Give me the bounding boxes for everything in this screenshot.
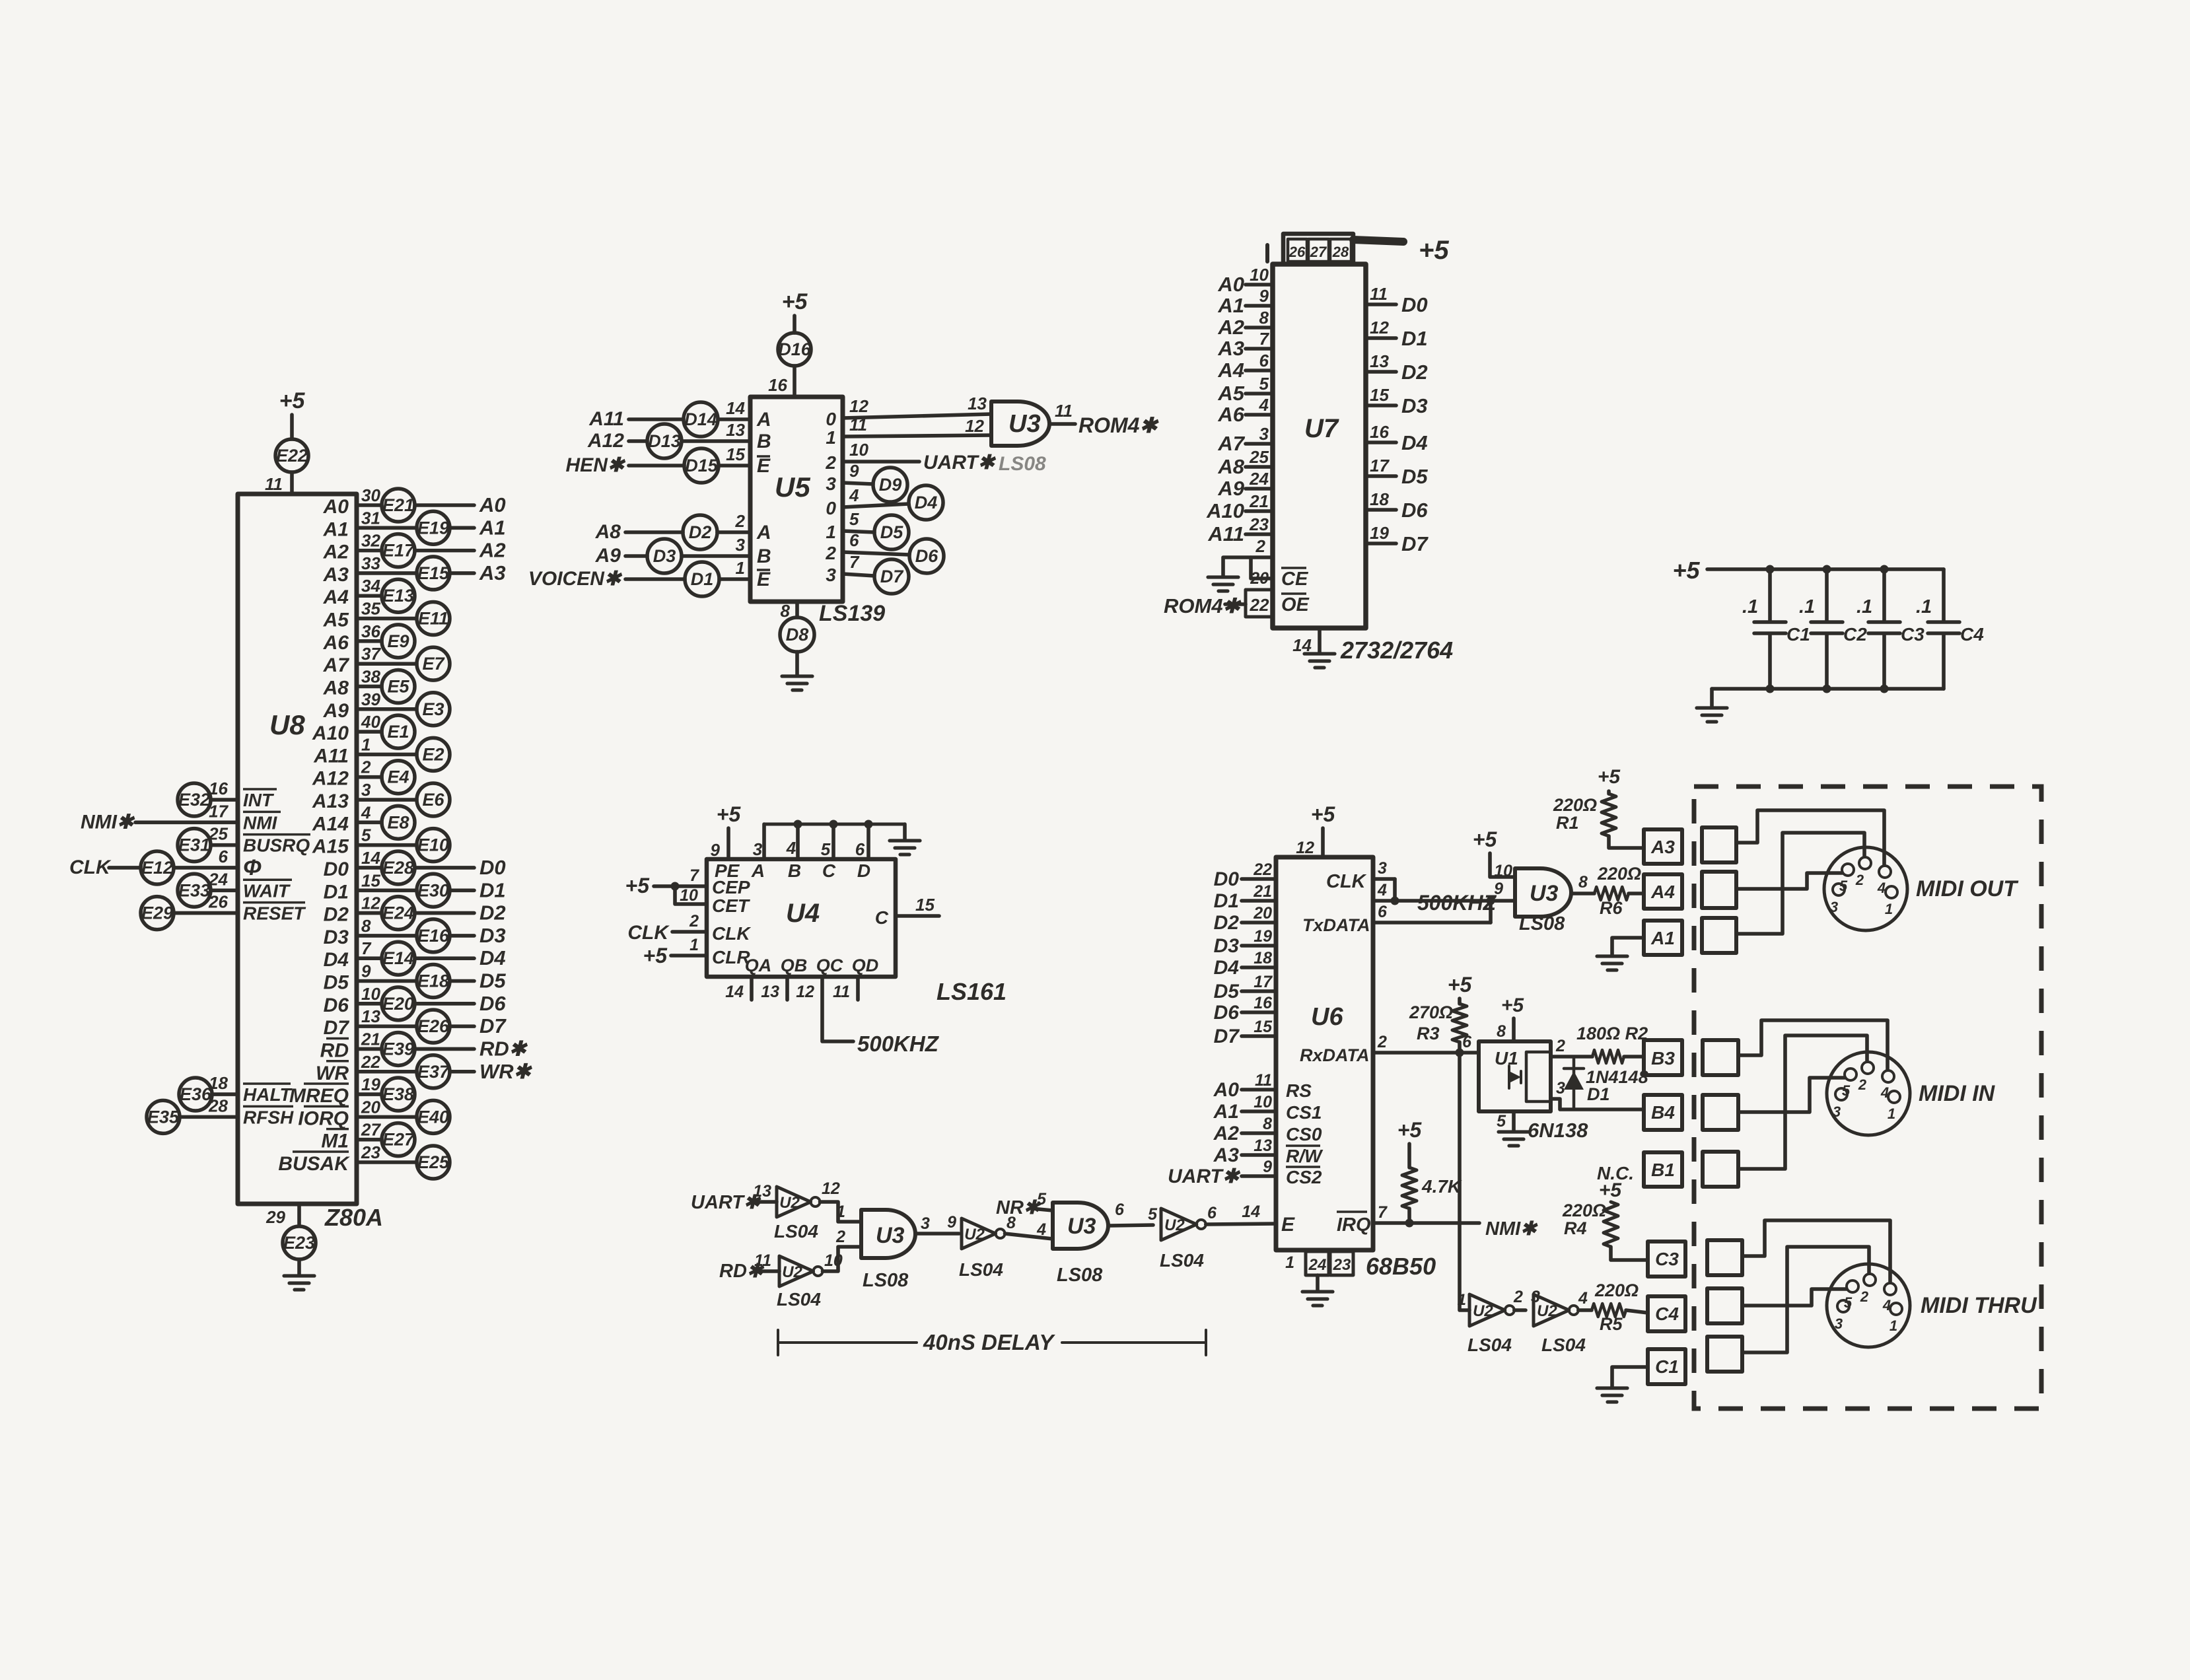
svg-text:7: 7 [689, 866, 699, 885]
svg-text:24: 24 [1308, 1256, 1327, 1274]
svg-text:8: 8 [361, 916, 371, 936]
svg-text:E11: E11 [418, 609, 448, 629]
solder pad MIDI OUT 1 [1702, 827, 1736, 862]
wire E22 to U8 pin 11 [290, 472, 294, 494]
junction dot U4 rail [830, 820, 838, 829]
wire U8 A11 stub [357, 753, 417, 757]
jumper D8 [780, 617, 814, 652]
svg-text:E19: E19 [417, 518, 449, 538]
wire D16 to U5 pin 16 [793, 366, 796, 397]
svg-text:RD✱: RD✱ [479, 1037, 528, 1060]
ground (U8) [284, 1276, 314, 1290]
wire CLK to U4 [672, 930, 707, 934]
jumper D6 [909, 539, 944, 573]
svg-text:180Ω R2: 180Ω R2 [1576, 1024, 1648, 1043]
solder pad MIDI IN 1 [1703, 1040, 1738, 1075]
svg-text:6: 6 [855, 839, 865, 859]
jumper E24 [382, 897, 415, 930]
svg-text:E12: E12 [141, 858, 173, 878]
svg-text:22: 22 [1253, 860, 1272, 879]
wire R5 to C4 pad [1626, 1310, 1648, 1313]
svg-text:C3: C3 [1655, 1249, 1679, 1269]
svg-text:21: 21 [361, 1029, 380, 1049]
svg-text:A1: A1 [479, 516, 506, 539]
wire U4 input A riser [762, 824, 766, 859]
svg-text:1: 1 [1890, 1317, 1897, 1334]
jumper E14 [382, 942, 415, 975]
wire D14 to U5 [718, 417, 750, 421]
svg-text:12: 12 [849, 396, 868, 416]
junction dot TxDATA [1487, 897, 1495, 905]
svg-text:D5: D5 [880, 522, 903, 542]
svg-text:LS04: LS04 [1541, 1335, 1586, 1355]
svg-text:7: 7 [849, 552, 860, 572]
capacitor C1 [1742, 596, 1810, 645]
wire cap C2 top lead [1825, 569, 1829, 621]
svg-text:6: 6 [1462, 1033, 1472, 1051]
wire +5 to U4 CLR [671, 954, 707, 958]
svg-text:A3: A3 [323, 564, 349, 586]
svg-text:24: 24 [1249, 469, 1269, 489]
svg-text:D0: D0 [1401, 293, 1428, 316]
junction dot IRQ pullup [1405, 1219, 1414, 1228]
U6 pin 24 box [1306, 1251, 1329, 1275]
wire A0 to U7 [1246, 283, 1273, 287]
svg-text:U2: U2 [1537, 1302, 1557, 1320]
svg-text:E: E [757, 455, 771, 477]
wire +5 to D16 [793, 316, 796, 333]
wire U3b out to U2c [917, 1232, 959, 1236]
svg-text:E: E [757, 569, 771, 590]
dashed enclosure (rear panel) [1694, 787, 2041, 1409]
svg-text:13: 13 [726, 420, 745, 440]
svg-text:13: 13 [761, 983, 779, 1001]
svg-text:13: 13 [753, 1182, 771, 1201]
svg-text:3: 3 [736, 535, 746, 555]
wire RxDATA down to U2e [1460, 1053, 1469, 1310]
wire D6 to U6 [1242, 1010, 1276, 1014]
jumper D9 [873, 468, 907, 502]
wire U8 A2 stub [357, 549, 382, 553]
svg-text:.1: .1 [1799, 596, 1815, 617]
svg-text:E: E [1281, 1214, 1295, 1236]
svg-text:35: 35 [361, 599, 380, 619]
svg-text:D3: D3 [1214, 935, 1240, 957]
jumper E40 [417, 1100, 450, 1133]
svg-text:D2: D2 [324, 904, 349, 926]
wire D5 to U6 [1242, 989, 1276, 993]
wire U7 D7 stub [1366, 542, 1396, 545]
U7 pin 22 number (boxed) [1246, 590, 1273, 617]
solder pad MIDI THRU 2 [1707, 1288, 1742, 1323]
svg-text:1: 1 [1458, 1291, 1466, 1309]
svg-text:U3: U3 [1530, 881, 1559, 906]
wire U8 A1 stub [357, 526, 417, 530]
svg-text:7: 7 [361, 938, 372, 958]
svg-text:A15: A15 [312, 836, 349, 858]
U6 TxDATA pin 6 stub [1373, 921, 1491, 925]
svg-text:D4: D4 [324, 949, 349, 971]
junction dot cap rail bottom [1823, 685, 1831, 693]
svg-text:19: 19 [1370, 523, 1389, 543]
svg-text:6: 6 [849, 530, 859, 550]
svg-text:CEP: CEP [712, 877, 750, 897]
wire pad3 to DIN IN pin2 [1738, 1035, 1867, 1169]
svg-text:21: 21 [1249, 491, 1269, 511]
svg-text:D7: D7 [479, 1014, 507, 1037]
svg-text:A1: A1 [1650, 928, 1675, 948]
wire U8 MREQ stub [357, 1092, 382, 1096]
svg-text:9: 9 [711, 840, 721, 860]
svg-text:26: 26 [208, 892, 228, 912]
UART U6 68B50 body [1276, 857, 1373, 1250]
wire A3 to U6 [1242, 1153, 1276, 1157]
wire U8 D4 stub [357, 956, 382, 960]
wire U2b out to U3b pin2 [823, 1247, 861, 1271]
svg-text:IRQ: IRQ [1337, 1214, 1371, 1236]
jumper E16 [417, 919, 450, 952]
svg-text:D4: D4 [1214, 957, 1240, 979]
wire U5 pin8 to D8 [795, 602, 799, 617]
svg-text:3: 3 [1835, 1315, 1843, 1332]
svg-text:UART✱: UART✱ [1168, 1166, 1241, 1187]
svg-text:U1: U1 [1495, 1048, 1518, 1068]
svg-text:4: 4 [849, 485, 859, 505]
svg-text:0: 0 [826, 409, 836, 429]
jumper E32 [178, 783, 211, 816]
svg-text:WAIT: WAIT [243, 880, 291, 901]
svg-text:D13: D13 [648, 431, 681, 451]
wire cap C1 top lead [1768, 569, 1772, 621]
wire E28 to net D0 [415, 866, 474, 870]
svg-text:21: 21 [1253, 882, 1272, 901]
svg-text:A7: A7 [1217, 432, 1245, 455]
ground (U7 CE) [1208, 577, 1238, 591]
svg-text:6N138: 6N138 [1528, 1119, 1588, 1142]
svg-text:C1: C1 [1655, 1356, 1679, 1377]
wire pad3 to DIN OUT pin2 [1736, 833, 1864, 934]
svg-text:6: 6 [1259, 351, 1269, 370]
svg-text:E2: E2 [422, 744, 444, 764]
edge pin B1 box [1644, 1152, 1682, 1187]
jumper E17 [382, 534, 415, 567]
svg-text:4.7K: 4.7K [1421, 1176, 1462, 1197]
svg-text:500KHZ: 500KHZ [1417, 891, 1497, 915]
svg-text:23: 23 [1333, 1256, 1351, 1274]
svg-text:10: 10 [680, 886, 698, 905]
svg-text:3: 3 [1378, 859, 1387, 878]
jumper D14 [684, 402, 718, 437]
svg-text:22: 22 [361, 1052, 380, 1072]
jumper D5 [874, 515, 909, 549]
svg-text:15: 15 [361, 870, 380, 890]
svg-text:MIDI THRU: MIDI THRU [1921, 1293, 2037, 1318]
wire +5 to U4 CEP [654, 884, 707, 888]
svg-text:CLK: CLK [69, 857, 112, 878]
svg-text:8: 8 [1578, 873, 1588, 892]
svg-text:RFSH: RFSH [243, 1107, 294, 1127]
junction dot cap rail bottom [1880, 685, 1889, 693]
wire R2 to B3 [1624, 1055, 1644, 1059]
wire +5 to U6 [1321, 828, 1325, 857]
dimension 40nS DELAY [778, 1330, 1206, 1355]
wire D15 to U5 [719, 464, 750, 468]
wire U2d out to U6 E [1206, 1224, 1276, 1224]
svg-text:10: 10 [361, 984, 380, 1004]
svg-text:34: 34 [361, 576, 380, 596]
svg-text:CLK: CLK [712, 923, 751, 944]
svg-text:220Ω: 220Ω [1562, 1201, 1606, 1220]
resistor R2 180 ohm [1576, 1024, 1648, 1063]
jumper E9 [382, 625, 415, 658]
svg-text:6: 6 [1207, 1204, 1217, 1222]
jumper E31 [178, 829, 211, 862]
svg-text:MIDI IN: MIDI IN [1919, 1081, 1996, 1106]
connector DIN MIDI THRU [1827, 1264, 1910, 1347]
wire R4 to C3 pad [1611, 1247, 1648, 1260]
wire U8 A6 stub [357, 639, 382, 643]
U7 pin 1 tick [1265, 245, 1269, 262]
wire U4 QC to 500KHZ [822, 977, 853, 1041]
svg-text:D7: D7 [1214, 1026, 1240, 1047]
svg-text:2: 2 [735, 511, 746, 531]
svg-text:220Ω: 220Ω [1553, 795, 1597, 815]
inverter U2d LS04 [1161, 1208, 1206, 1240]
svg-text:A7: A7 [323, 654, 350, 676]
wire U4 input B riser [796, 824, 800, 859]
inverter U2c LS04 [962, 1218, 1005, 1249]
jumper D13 [647, 424, 682, 458]
svg-text:2: 2 [1255, 536, 1266, 556]
svg-text:5: 5 [821, 839, 831, 859]
svg-text:23: 23 [361, 1142, 380, 1162]
jumper E28 [382, 851, 415, 884]
svg-text:A11: A11 [313, 745, 349, 767]
svg-text:3: 3 [826, 473, 836, 494]
svg-text:4: 4 [1036, 1220, 1046, 1239]
wire U8 A13 stub [357, 798, 417, 802]
svg-text:13: 13 [1370, 351, 1389, 371]
svg-text:10: 10 [1494, 862, 1512, 880]
wire U5 pin6 to D6 [843, 552, 909, 555]
svg-text:0: 0 [826, 498, 836, 518]
jumper E5 [382, 670, 415, 703]
wire E12 to U8 phi [174, 866, 238, 870]
capacitor C3 [1856, 596, 1925, 645]
jumper E2 [417, 738, 450, 771]
svg-text:E23: E23 [283, 1233, 315, 1253]
wire U8 A15 stub [357, 843, 417, 847]
wire +5 to U4 PE [726, 828, 730, 859]
svg-text:38: 38 [361, 666, 380, 686]
wire U8 pin 29 to E23 [297, 1204, 301, 1226]
svg-text:A: A [751, 860, 765, 881]
svg-text:RESET: RESET [243, 903, 306, 924]
svg-text:A2: A2 [323, 542, 349, 563]
svg-text:C3: C3 [1901, 624, 1925, 645]
wire U1 pin5 to ground [1512, 1111, 1516, 1131]
svg-text:D2: D2 [479, 901, 506, 925]
diode D1 1N4148 [1564, 1057, 1648, 1109]
svg-text:31: 31 [361, 508, 380, 528]
U6 RxDATA pin 2 wire [1373, 1051, 1479, 1055]
svg-text:E10: E10 [417, 835, 449, 855]
svg-text:1: 1 [1285, 1253, 1294, 1272]
svg-text:E3: E3 [422, 699, 444, 719]
junction dot clk [1391, 897, 1399, 905]
wire pad2 to DIN OUT pin5 [1736, 873, 1842, 889]
jumper E27 [382, 1123, 415, 1156]
svg-text:D2: D2 [1401, 361, 1428, 384]
wire U7 D6 stub [1366, 508, 1396, 512]
svg-text:OE: OE [1281, 594, 1310, 615]
svg-text:BUSAK: BUSAK [278, 1153, 350, 1175]
wire U8 IORQ stub [357, 1115, 417, 1119]
svg-text:E6: E6 [422, 790, 444, 810]
jumper E26 [417, 1010, 450, 1043]
jumper D15 [684, 448, 719, 483]
wire U7 D0 stub [1366, 302, 1396, 306]
wire U8 RD stub [357, 1047, 382, 1051]
jumper E38 [382, 1078, 415, 1111]
svg-text:D5: D5 [479, 969, 506, 993]
inverter U2a LS04 [777, 1187, 820, 1217]
svg-text:D7: D7 [324, 1017, 350, 1039]
svg-text:D0: D0 [324, 858, 349, 880]
wire U7 CE stub [1251, 557, 1273, 578]
svg-text:B1: B1 [1651, 1160, 1675, 1180]
jumper E7 [417, 647, 450, 680]
svg-text:HALT: HALT [243, 1084, 293, 1105]
svg-text:1: 1 [1888, 1105, 1895, 1122]
svg-text:25: 25 [1249, 447, 1269, 467]
wire U5 pin10 to UART* [843, 460, 919, 464]
svg-text:15: 15 [1370, 385, 1389, 405]
wire U8 D3 stub [357, 934, 417, 938]
svg-text:U3: U3 [1008, 410, 1041, 438]
svg-text:E26: E26 [417, 1016, 450, 1036]
wire E33 to WAIT [211, 888, 238, 892]
svg-text:14: 14 [725, 983, 744, 1001]
wire U7 D3 stub [1366, 403, 1396, 407]
svg-text:A12: A12 [312, 768, 349, 790]
wire U5 pin12 to U3 pin13 [843, 414, 991, 418]
svg-text:A6: A6 [323, 632, 349, 654]
svg-text:D7: D7 [1401, 532, 1429, 555]
svg-text:12: 12 [796, 983, 814, 1001]
wire A3 to U7 [1246, 347, 1273, 351]
svg-text:MREQ: MREQ [289, 1085, 349, 1107]
svg-text:A3: A3 [1217, 337, 1244, 360]
svg-text:68B50: 68B50 [1366, 1253, 1436, 1280]
resistor R6 220 ohm [1594, 864, 1641, 918]
U1 pin 3 wire [1551, 1099, 1644, 1109]
ground (U7 pin 14) [1304, 654, 1335, 668]
svg-text:LS08: LS08 [1519, 913, 1565, 934]
solder pad MIDI OUT 3 [1702, 918, 1736, 953]
svg-text:15: 15 [726, 444, 745, 464]
wire D7 to U6 [1242, 1034, 1276, 1038]
wire U5 pin9 to D9 [843, 483, 873, 484]
svg-text:LS08: LS08 [1057, 1265, 1103, 1286]
svg-text:3: 3 [753, 839, 763, 859]
wire U7 D5 stub [1366, 474, 1396, 478]
svg-text:CS1: CS1 [1286, 1102, 1322, 1123]
svg-text:A2: A2 [1213, 1123, 1240, 1144]
resistor R5 220 ohm [1592, 1280, 1639, 1334]
svg-text:U2: U2 [964, 1226, 985, 1243]
wire 500KHZ net [1395, 899, 1490, 903]
svg-text:E37: E37 [417, 1062, 450, 1082]
jumper E1 [382, 715, 415, 748]
svg-text:D9: D9 [879, 475, 902, 495]
U6 pin 4 stub [1373, 899, 1395, 903]
svg-text:E35: E35 [147, 1107, 180, 1127]
svg-text:U2: U2 [779, 1194, 800, 1212]
svg-text:R6: R6 [1600, 898, 1623, 918]
wire U2a out to U3b pin1 [820, 1202, 861, 1222]
svg-text:22: 22 [1250, 595, 1269, 615]
svg-text:C1: C1 [1786, 624, 1810, 645]
svg-text:12: 12 [361, 893, 380, 913]
svg-text:C4: C4 [1655, 1304, 1679, 1324]
svg-text:+5: +5 [1501, 995, 1525, 1016]
svg-text:9: 9 [1494, 880, 1503, 898]
svg-text:A4: A4 [1217, 359, 1244, 382]
svg-text:E20: E20 [382, 994, 414, 1014]
wire U7 D1 stub [1366, 336, 1396, 340]
svg-text:LS161: LS161 [936, 978, 1007, 1005]
wire CLK to E12 [109, 866, 140, 870]
svg-text:19: 19 [1254, 927, 1272, 946]
svg-text:1: 1 [826, 427, 836, 448]
svg-text:A0: A0 [323, 496, 349, 518]
junction dot CEP [671, 882, 680, 891]
svg-text:A0: A0 [1213, 1079, 1240, 1101]
svg-text:D6: D6 [324, 995, 349, 1016]
svg-text:D4: D4 [1401, 431, 1428, 454]
svg-text:5: 5 [1148, 1205, 1158, 1224]
svg-text:CS2: CS2 [1286, 1167, 1322, 1187]
U1 pin 2 stub [1551, 1055, 1592, 1059]
svg-text:D4: D4 [915, 493, 938, 512]
capacitor C4 [1916, 596, 1984, 645]
svg-text:7: 7 [1378, 1203, 1388, 1222]
U7 top pin box 26/27/28 [1283, 234, 1353, 264]
wire E23 to ground [297, 1259, 301, 1275]
svg-text:WR✱: WR✱ [479, 1060, 533, 1083]
svg-text:E9: E9 [387, 631, 409, 651]
svg-text:20: 20 [1253, 904, 1272, 923]
jumper D2 [683, 515, 717, 549]
jumper E21 [382, 489, 415, 522]
svg-text:13: 13 [968, 394, 987, 413]
wire U3a output [1050, 422, 1075, 426]
wire U8 A14 stub [357, 821, 382, 825]
svg-text:3: 3 [1259, 424, 1269, 444]
wire U8 A0 stub [357, 503, 382, 507]
svg-text:.1: .1 [1916, 596, 1932, 617]
svg-text:A4: A4 [1650, 882, 1675, 902]
svg-text:5: 5 [849, 509, 859, 529]
svg-text:LS04: LS04 [774, 1221, 818, 1242]
svg-text:17: 17 [1254, 973, 1273, 991]
wire U2e to U2f [1514, 1308, 1526, 1312]
svg-text:D4: D4 [479, 946, 506, 969]
svg-text:A9: A9 [1217, 477, 1244, 500]
svg-text:+5: +5 [625, 874, 651, 897]
svg-text:E38: E38 [382, 1084, 414, 1104]
